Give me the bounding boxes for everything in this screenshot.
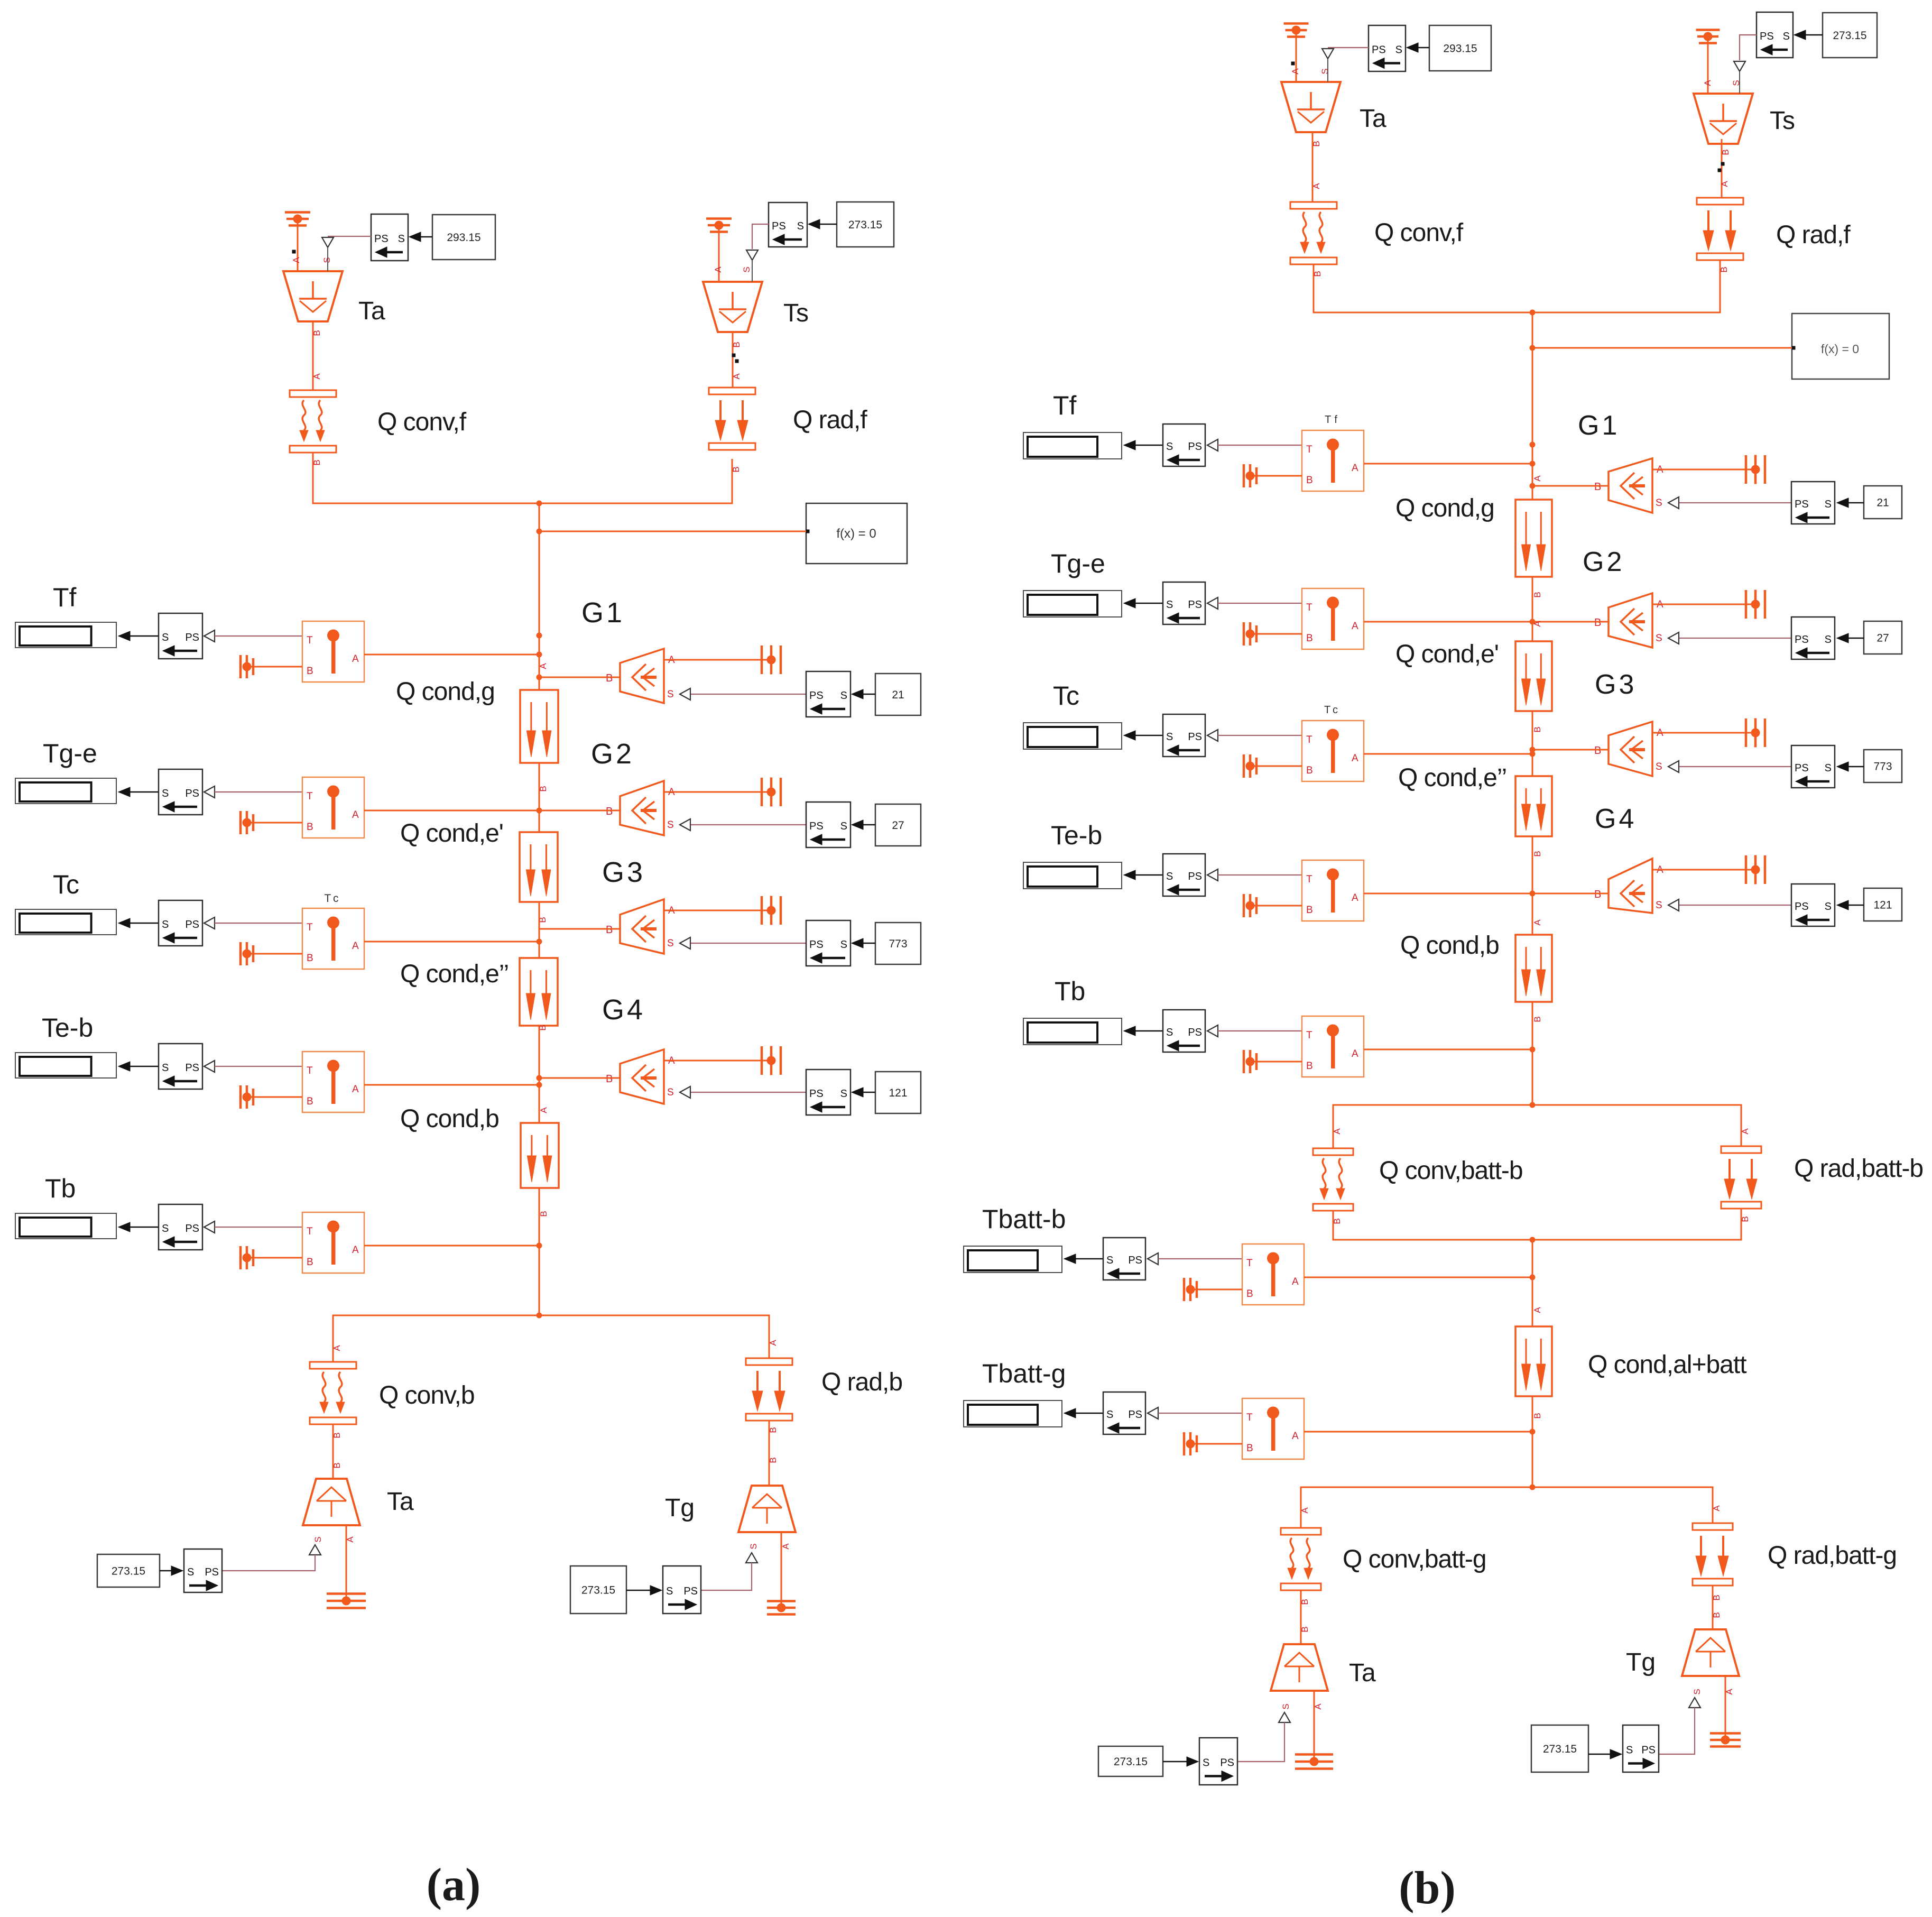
label Ta (b top) [1360, 105, 1386, 133]
svg-text:G1: G1 [1578, 410, 1620, 441]
svg-text:Tbatt-g: Tbatt-g [982, 1359, 1066, 1388]
junction heat source G3 B on bus (b) [1530, 747, 1536, 753]
thermal reference ground below Ta (panel a) [327, 1594, 366, 1608]
svg-text:B: B [1300, 1626, 1310, 1632]
svg-text:S: S [187, 1566, 194, 1578]
signal arrow converter to display Tc [118, 918, 159, 928]
PS-Simulink converter S PS (Tb) [159, 1204, 215, 1250]
conductive heat transfer Qcond,e' (panel b) [1515, 621, 1552, 733]
svg-text:B: B [1306, 1061, 1313, 1072]
label Tf (b) [1053, 391, 1077, 420]
wire sensor A to bus (Tg-e) [364, 810, 539, 812]
PS signal wire converter to heat source S (Tg-e row b) [1668, 632, 1791, 644]
conductive heat transfer Qcond,g (panel b) [1515, 475, 1552, 598]
display block Tc (b) [1023, 723, 1122, 749]
junction bus-solver [537, 529, 542, 534]
svg-text:A: A [291, 257, 301, 263]
controlled heat flow source (Tf row) [606, 649, 675, 703]
svg-text:T: T [307, 922, 313, 933]
svg-text:S: S [1203, 1757, 1209, 1769]
display block Te-b [15, 1053, 116, 1078]
svg-text:S: S [162, 632, 169, 643]
PS signal wire converter to heat source S (Tc row b) [1668, 761, 1791, 772]
signal arrow converter to display Tc (b) [1124, 731, 1163, 740]
junction bottom tee (panel b) [1530, 1485, 1536, 1490]
label Qcond,e'' (b) [1398, 764, 1506, 792]
junction battery loop top tee (b) [1530, 1102, 1536, 1108]
label Ta (bottom a) [387, 1488, 414, 1516]
label Qconv,batt-b [1379, 1157, 1523, 1185]
svg-text:Ts: Ts [783, 299, 809, 327]
wire tee to Qrad,batt-b [1532, 1105, 1750, 1146]
svg-text:S: S [1166, 871, 1173, 882]
svg-text:PS: PS [683, 1586, 698, 1597]
conductive heat transfer Qcond,al+batt [1515, 1307, 1552, 1419]
PS signal wire converter to heat source S (Tf row b) [1668, 497, 1791, 509]
svg-text:A: A [1332, 1128, 1342, 1135]
svg-text:A: A [1352, 753, 1358, 764]
svg-text:G1: G1 [581, 597, 625, 629]
svg-text:PS: PS [809, 939, 824, 951]
PS-Simulink converter S PS (Tg-e b) [1163, 582, 1218, 624]
svg-text:Tc: Tc [325, 892, 342, 905]
caption (b) [1399, 1863, 1456, 1914]
thermal reference ground at heat source A (Tc row) [762, 896, 781, 925]
display block Tb [15, 1213, 116, 1239]
svg-text:S: S [1825, 762, 1832, 774]
svg-text:B: B [307, 1096, 313, 1107]
svg-text:S: S [1106, 1409, 1113, 1421]
thermal reference ground at heat source A (Tc row b) [1746, 718, 1765, 748]
svg-text:Q conv,batt-b: Q conv,batt-b [1379, 1157, 1523, 1185]
svg-text:Tc: Tc [1324, 704, 1341, 716]
conductive heat transfer Qcond,e' (panel a) [520, 832, 558, 923]
PS-Simulink converter PS S (Te-b row) [806, 1070, 851, 1115]
label Ta [358, 297, 385, 325]
constant 21 (Tf row) [875, 674, 921, 715]
wire Qrad,b B to Tg source [768, 1421, 778, 1486]
display block Tbatt-b (b) [964, 1246, 1062, 1273]
wire heat source A to ground (Te-b row b) [1652, 869, 1755, 871]
controlled heat flow source (Tg-e row b) [1594, 593, 1663, 648]
junction heat source G1 B on bus (b) [1530, 483, 1536, 489]
wire bus to Qrad,batt-g [1532, 1487, 1722, 1523]
thermal reference ground at sensor B (Tb) [241, 1246, 302, 1269]
bus wire G1-G2 (panel b) [1532, 577, 1533, 641]
bus wire G3-G4 (panel b) [1532, 836, 1533, 935]
wire heat source B to bus (Tf row) [539, 677, 620, 678]
PS-Simulink converter S PS (Tbatt-b b) [1103, 1238, 1158, 1280]
svg-text:B: B [1532, 592, 1542, 597]
label Tb [45, 1174, 76, 1203]
junction heat source G4 B on bus [537, 1075, 542, 1081]
display block Tf (b) [1023, 432, 1122, 459]
thermal reference ground (panel b, above Ta) [1284, 24, 1309, 82]
constant 293.15 (panel b) [1429, 25, 1491, 71]
svg-text:S: S [742, 266, 752, 272]
svg-text:Q cond,e’’: Q cond,e’’ [400, 960, 509, 988]
svg-text:B: B [1532, 1016, 1542, 1022]
junction bottom tee (panel a) [537, 1313, 542, 1319]
PS-Simulink converter S PS (Tg-e) [159, 769, 215, 815]
PS-Simulink converter S PS (Tb b) [1163, 1010, 1218, 1052]
PS-Simulink converter PS S (Tf row b) [1791, 482, 1835, 524]
wire Tg A to ground (panel b bottom) [1725, 1676, 1726, 1740]
svg-text:Ta: Ta [387, 1488, 414, 1516]
controlled temperature source Ta (panel b bottom) [1271, 1644, 1328, 1710]
svg-text:A: A [352, 653, 359, 665]
PS-Simulink converter S PS (Tf) [159, 613, 215, 659]
PS signal wire sensor T to converter (Tf b) [1218, 445, 1302, 446]
label Qconv,batt-g [1343, 1545, 1486, 1573]
svg-text:PS: PS [1188, 441, 1202, 453]
svg-text:B: B [1712, 1612, 1722, 1618]
signal arrow converter to display Te-b [118, 1062, 159, 1071]
wire heat source B to bus (Tg-e row) [539, 810, 620, 812]
thermal reference ground at sensor B (Tb b) [1244, 1050, 1302, 1073]
label Tb (b) [1055, 976, 1085, 1006]
constant 121 (Te-b row b) [1864, 888, 1902, 921]
label Ts [783, 299, 809, 327]
bus wire top segment (panel b) [1532, 312, 1533, 500]
svg-text:S: S [162, 919, 169, 930]
svg-text:G3: G3 [602, 856, 645, 888]
svg-text:G3: G3 [1595, 669, 1637, 700]
constant 27 (Tg-e row) [875, 804, 921, 846]
label G3 (b) [1595, 669, 1637, 700]
controlled heat flow source (Tf row b) [1594, 458, 1663, 513]
svg-text:27: 27 [892, 819, 904, 832]
label G3 [602, 856, 645, 888]
svg-text:Q rad,f: Q rad,f [1776, 221, 1851, 249]
svg-text:Tc: Tc [53, 870, 79, 899]
svg-text:PS: PS [185, 919, 199, 930]
PS wire converter to Ta S (b) [1322, 48, 1369, 82]
svg-text:B: B [1246, 1443, 1253, 1454]
wire bus to solver (b) [1532, 347, 1792, 349]
svg-text:S: S [322, 257, 332, 263]
svg-text:Ta: Ta [1360, 105, 1386, 133]
temperature sensor block (Tg-e b) [1302, 588, 1364, 649]
constant 273.15 (panel b top) [1823, 13, 1877, 58]
svg-text:T: T [307, 635, 313, 646]
svg-text:B: B [1532, 726, 1542, 732]
PS wire converter to Tg S (b bottom) [1659, 1698, 1700, 1754]
thermal reference ground below Tg (panel a) [767, 1601, 796, 1615]
display block Tc [15, 909, 116, 935]
temperature sensor block (Tc b) [1302, 721, 1364, 781]
conductive heat transfer Qcond,e'' (panel b) [1515, 776, 1552, 857]
temperature sensor block (Tbatt-g b) [1242, 1398, 1304, 1459]
svg-text:A: A [1352, 892, 1358, 904]
junction sensor A on bus (Tbatt-b b) [1530, 1275, 1536, 1280]
PS signal wire converter to heat source S (Tf row) [680, 688, 806, 700]
junction sensor A on bus (Te-b) [537, 1082, 542, 1088]
svg-text:Q rad,f: Q rad,f [793, 406, 867, 434]
svg-text:(b): (b) [1399, 1863, 1456, 1914]
bus wire G2-G3 (panel b) [1532, 711, 1533, 776]
conductive heat transfer Qcond,e'' (panel a) [520, 958, 558, 1031]
controlled temperature source Tg (panel b bottom) [1682, 1629, 1739, 1695]
PS signal wire sensor T to converter (Tb b) [1218, 1030, 1302, 1031]
PS-Simulink converter S PS (Tc b) [1163, 714, 1218, 757]
Simulink-PS converter S PS (panel a bottom right) [663, 1566, 701, 1614]
label Qconv,f [377, 408, 467, 436]
constant 273.15 (panel a bottom right) [570, 1566, 626, 1614]
svg-text:A: A [1300, 1507, 1310, 1514]
thermal reference ground below Tg (panel b) [1710, 1734, 1741, 1747]
wire heat source B to bus (Te-b row) [539, 1077, 620, 1079]
svg-text:S: S [1166, 1027, 1173, 1038]
junction heat source G1 B on bus [537, 675, 542, 680]
constant 273.15 (panel b bottom right) [1531, 1725, 1588, 1772]
constant 773 (Tc row) [875, 923, 921, 964]
svg-text:B: B [1594, 745, 1601, 757]
signal arrow converter to display Tb (b) [1124, 1026, 1163, 1036]
svg-text:A: A [1532, 1307, 1542, 1313]
controlled heat flow source (Te-b row b) [1594, 859, 1663, 913]
signal arrow constant 27 to converter [852, 820, 875, 830]
svg-text:S: S [748, 1543, 759, 1549]
temperature sensor block (Tb) [302, 1212, 364, 1273]
temperature sensor block (Tbatt-b b) [1242, 1244, 1304, 1305]
svg-text:PS: PS [1188, 1027, 1202, 1038]
PS-Simulink converter S PS (Te-b) [159, 1044, 215, 1089]
PS signal wire converter to Tg S (panel a bottom) [701, 1553, 757, 1590]
wire heat source A to ground (Tf row b) [1652, 469, 1755, 471]
svg-text:B: B [1311, 141, 1321, 146]
PS-Simulink converter PS S (Tg-e row b) [1791, 617, 1835, 659]
wire sensor A to bus (Tbatt-b b) [1304, 1277, 1532, 1278]
svg-text:S: S [1825, 901, 1832, 913]
label Qcond,b (b) [1400, 932, 1499, 960]
thermal reference ground at heat source A (Tf row b) [1746, 455, 1765, 484]
PS signal wire converter to Ts S port [746, 224, 769, 282]
conductive heat transfer Qcond,b (panel a) [521, 1107, 559, 1217]
svg-text:Ts: Ts [1770, 107, 1795, 135]
svg-text:Q cond,b: Q cond,b [400, 1105, 499, 1133]
svg-text:PS: PS [1795, 901, 1809, 913]
controlled heat flow source (Te-b row) [606, 1049, 675, 1104]
caption (a) [427, 1859, 481, 1911]
wire Qrad,batt-g B to Tg source (b) [1712, 1586, 1722, 1629]
svg-text:A: A [1740, 1128, 1750, 1135]
constant 273.15 (panel a bottom left) [97, 1554, 160, 1587]
signal arrow 273.15 to converter [160, 1566, 183, 1575]
svg-text:A: A [312, 373, 322, 380]
thermal reference ground (panel a, above Ts) [706, 219, 732, 282]
label Qconv,b [379, 1381, 475, 1409]
label Qrad,f [793, 406, 867, 434]
constant 27 (Tg-e row b) [1864, 621, 1902, 654]
label Te-b [42, 1013, 93, 1043]
Simulink-PS converter S PS (panel b bottom left) [1199, 1738, 1237, 1785]
svg-text:B: B [1306, 765, 1313, 776]
Simulink-PS converter PS S (panel b, Ts) [1757, 12, 1793, 58]
svg-text:T: T [307, 1226, 313, 1237]
sensor sublabel Tc [325, 892, 342, 905]
signal arrow constant 27 to converter (b) [1837, 633, 1864, 643]
label G2 (b) [1583, 547, 1624, 577]
display block Tg-e (b) [1023, 591, 1122, 617]
PS-Simulink converter PS S (Te-b row b) [1791, 884, 1835, 926]
svg-text:A: A [352, 941, 359, 952]
wire heat source B to bus (Tc row) [539, 928, 620, 930]
svg-text:A: A [332, 1345, 342, 1351]
PS signal wire sensor T to converter (Te-b) [215, 1066, 302, 1067]
thermal reference ground at sensor B (Tbatt-b b) [1184, 1278, 1242, 1301]
svg-text:Q cond,e’’: Q cond,e’’ [1398, 764, 1506, 792]
signal arrow constant 121 to converter [852, 1087, 875, 1097]
svg-text:A: A [352, 809, 359, 821]
svg-text:S: S [667, 689, 674, 700]
algebraic solver block f(x)=0 (panel b) [1792, 314, 1890, 379]
svg-text:S: S [398, 233, 405, 245]
wire sensor A to bus (Tg-e b) [1364, 621, 1532, 623]
Simulink-PS converter PS S (panel a, for Ts) [769, 202, 807, 247]
svg-text:B: B [312, 330, 322, 336]
wire bus to Qconv,batt-g [1300, 1487, 1532, 1528]
Simulink-PS converter S PS (panel b bottom right) [1623, 1725, 1659, 1772]
signal arrow converter to display Tbatt-g (b) [1064, 1408, 1103, 1418]
wire bus to Qconv,b [332, 1315, 539, 1362]
label Tg (bottom a) [665, 1494, 695, 1522]
signal arrow 293.15 to converter (b) [1407, 43, 1429, 52]
svg-text:B: B [1306, 905, 1313, 916]
svg-text:G4: G4 [1595, 804, 1637, 834]
wire sensor A to bus (Tb b) [1364, 1049, 1532, 1050]
controlled heat flow source (Tc row b) [1594, 722, 1663, 776]
wire Qconv,batt-g B to Ta source (b) [1300, 1590, 1310, 1644]
svg-text:A: A [732, 373, 742, 380]
svg-text:273.15: 273.15 [848, 219, 882, 231]
svg-text:PS: PS [809, 821, 824, 832]
PS signal wire sensor T to converter (Tc) [215, 923, 302, 924]
label Qrad,batt-g [1768, 1542, 1897, 1570]
wire Ta B to Qconv,f A [312, 321, 322, 390]
svg-text:773: 773 [889, 938, 907, 950]
label Tc (b) [1053, 681, 1079, 711]
PS signal wire sensor T to converter (Tb) [215, 1227, 302, 1228]
svg-text:S: S [1166, 731, 1173, 743]
PS-Simulink converter S PS (Tbatt-g b) [1103, 1392, 1158, 1434]
svg-text:PS: PS [1641, 1745, 1656, 1756]
svg-text:Tg-e: Tg-e [43, 739, 97, 768]
svg-text:A: A [1703, 80, 1713, 86]
svg-text:PS: PS [185, 788, 199, 799]
svg-text:T: T [1306, 444, 1312, 455]
Simulink-PS converter PS S (panel b, Ta) [1369, 25, 1406, 71]
svg-text:T: T [307, 791, 313, 802]
wire Ts B to Qrad,f A (b) [1718, 139, 1731, 198]
junction dot above G1 [537, 633, 542, 639]
wire bus to solver [539, 531, 806, 532]
conductive heat transfer Qcond,g (panel a) [520, 663, 558, 792]
algebraic solver block f(x)=0 (panel a) [806, 503, 908, 564]
wire Qrad,f B to bus (b) [1532, 260, 1720, 312]
wire sensor A to bus (Te-b) [364, 1084, 539, 1086]
wire heat source A to ground (Tf row) [664, 659, 771, 661]
svg-text:B: B [1306, 475, 1313, 486]
signal arrow 273.15 to converter (a bottom right) [626, 1586, 662, 1595]
svg-text:B: B [606, 672, 613, 684]
wire battery loop bottom [1333, 1209, 1741, 1240]
convective heat transfer Qconv,batt-g [1281, 1528, 1321, 1605]
bus wire below Qcond,b (panel a) [539, 1188, 540, 1315]
bus wire G3-G4 (panel a) [539, 1026, 540, 1123]
svg-text:Tf: Tf [53, 583, 77, 612]
signal arrow constant 121 to converter (b) [1837, 900, 1864, 910]
wire sensor A to bus (Tf) [364, 654, 539, 656]
svg-text:S: S [313, 1536, 323, 1542]
svg-text:A: A [1720, 181, 1730, 187]
svg-text:S: S [1166, 441, 1173, 453]
label Qconv,f (b) [1374, 219, 1464, 247]
convective heat transfer Qconv,f (panel b) [1290, 202, 1337, 277]
svg-text:273.15: 273.15 [1833, 30, 1866, 42]
Simulink-PS converter S PS (panel a bottom left) [184, 1549, 222, 1592]
svg-text:A: A [539, 1107, 549, 1113]
label Qrad,b [821, 1368, 902, 1396]
svg-text:A: A [1292, 1431, 1299, 1442]
junction sensor A on bus (Tb b) [1530, 1047, 1536, 1053]
thermal reference ground below Ta (panel b) [1295, 1755, 1333, 1769]
junction top bus (panel a) [537, 501, 542, 506]
thermal reference ground at sensor B (Tf) [241, 655, 302, 678]
wire heat source B to bus (Tc row b) [1532, 749, 1609, 751]
svg-text:S: S [840, 690, 847, 702]
junction sensor A on bus (Tg-e) [537, 808, 542, 814]
signal arrow constant 21 to converter (b) [1837, 498, 1864, 508]
svg-text:B: B [307, 666, 313, 677]
svg-text:B: B [1594, 481, 1601, 493]
PS-Simulink converter S PS (Tf b) [1163, 424, 1218, 466]
svg-text:S: S [1692, 1689, 1702, 1694]
label Tg-e [43, 739, 97, 768]
thermal reference ground at heat source A (Te-b row) [762, 1046, 781, 1075]
svg-text:B: B [1594, 889, 1601, 900]
signal arrow converter to display Tg-e [118, 787, 159, 797]
svg-text:S: S [1656, 633, 1662, 644]
junction sensor A on bus (Tg-e b) [1530, 619, 1536, 625]
svg-text:B: B [1306, 633, 1313, 644]
svg-text:G4: G4 [602, 994, 645, 1026]
PS-Simulink converter PS S (Tc row) [806, 920, 851, 966]
wire Ts B to Qrad,f A [732, 332, 742, 388]
svg-text:273.15: 273.15 [1114, 1756, 1148, 1768]
svg-text:A: A [1311, 183, 1321, 189]
svg-text:A: A [1352, 463, 1358, 474]
svg-text:A: A [352, 1245, 359, 1256]
wire sensor A to bus (Tc b) [1364, 753, 1532, 755]
svg-text:S: S [840, 1088, 847, 1100]
temperature sensor block (Tg-e) [302, 777, 364, 838]
label G4 [602, 994, 645, 1026]
svg-text:B: B [732, 342, 742, 347]
wire sensor A to bus (Tf b) [1364, 463, 1532, 465]
svg-text:Tc: Tc [1053, 681, 1079, 711]
svg-text:T: T [1306, 874, 1312, 885]
junction sensor A on bus (Tb) [537, 1243, 542, 1249]
junction sensor A on bus (Tbatt-g b) [1530, 1429, 1536, 1435]
svg-text:A: A [1532, 621, 1542, 627]
svg-text:B: B [307, 822, 313, 833]
svg-text:S: S [1656, 761, 1662, 772]
label Qcond,e' (b) [1395, 640, 1499, 668]
PS signal wire converter to Ta S port [322, 236, 371, 271]
svg-text:21: 21 [892, 689, 904, 701]
svg-text:f(x) = 0: f(x) = 0 [1821, 342, 1859, 356]
